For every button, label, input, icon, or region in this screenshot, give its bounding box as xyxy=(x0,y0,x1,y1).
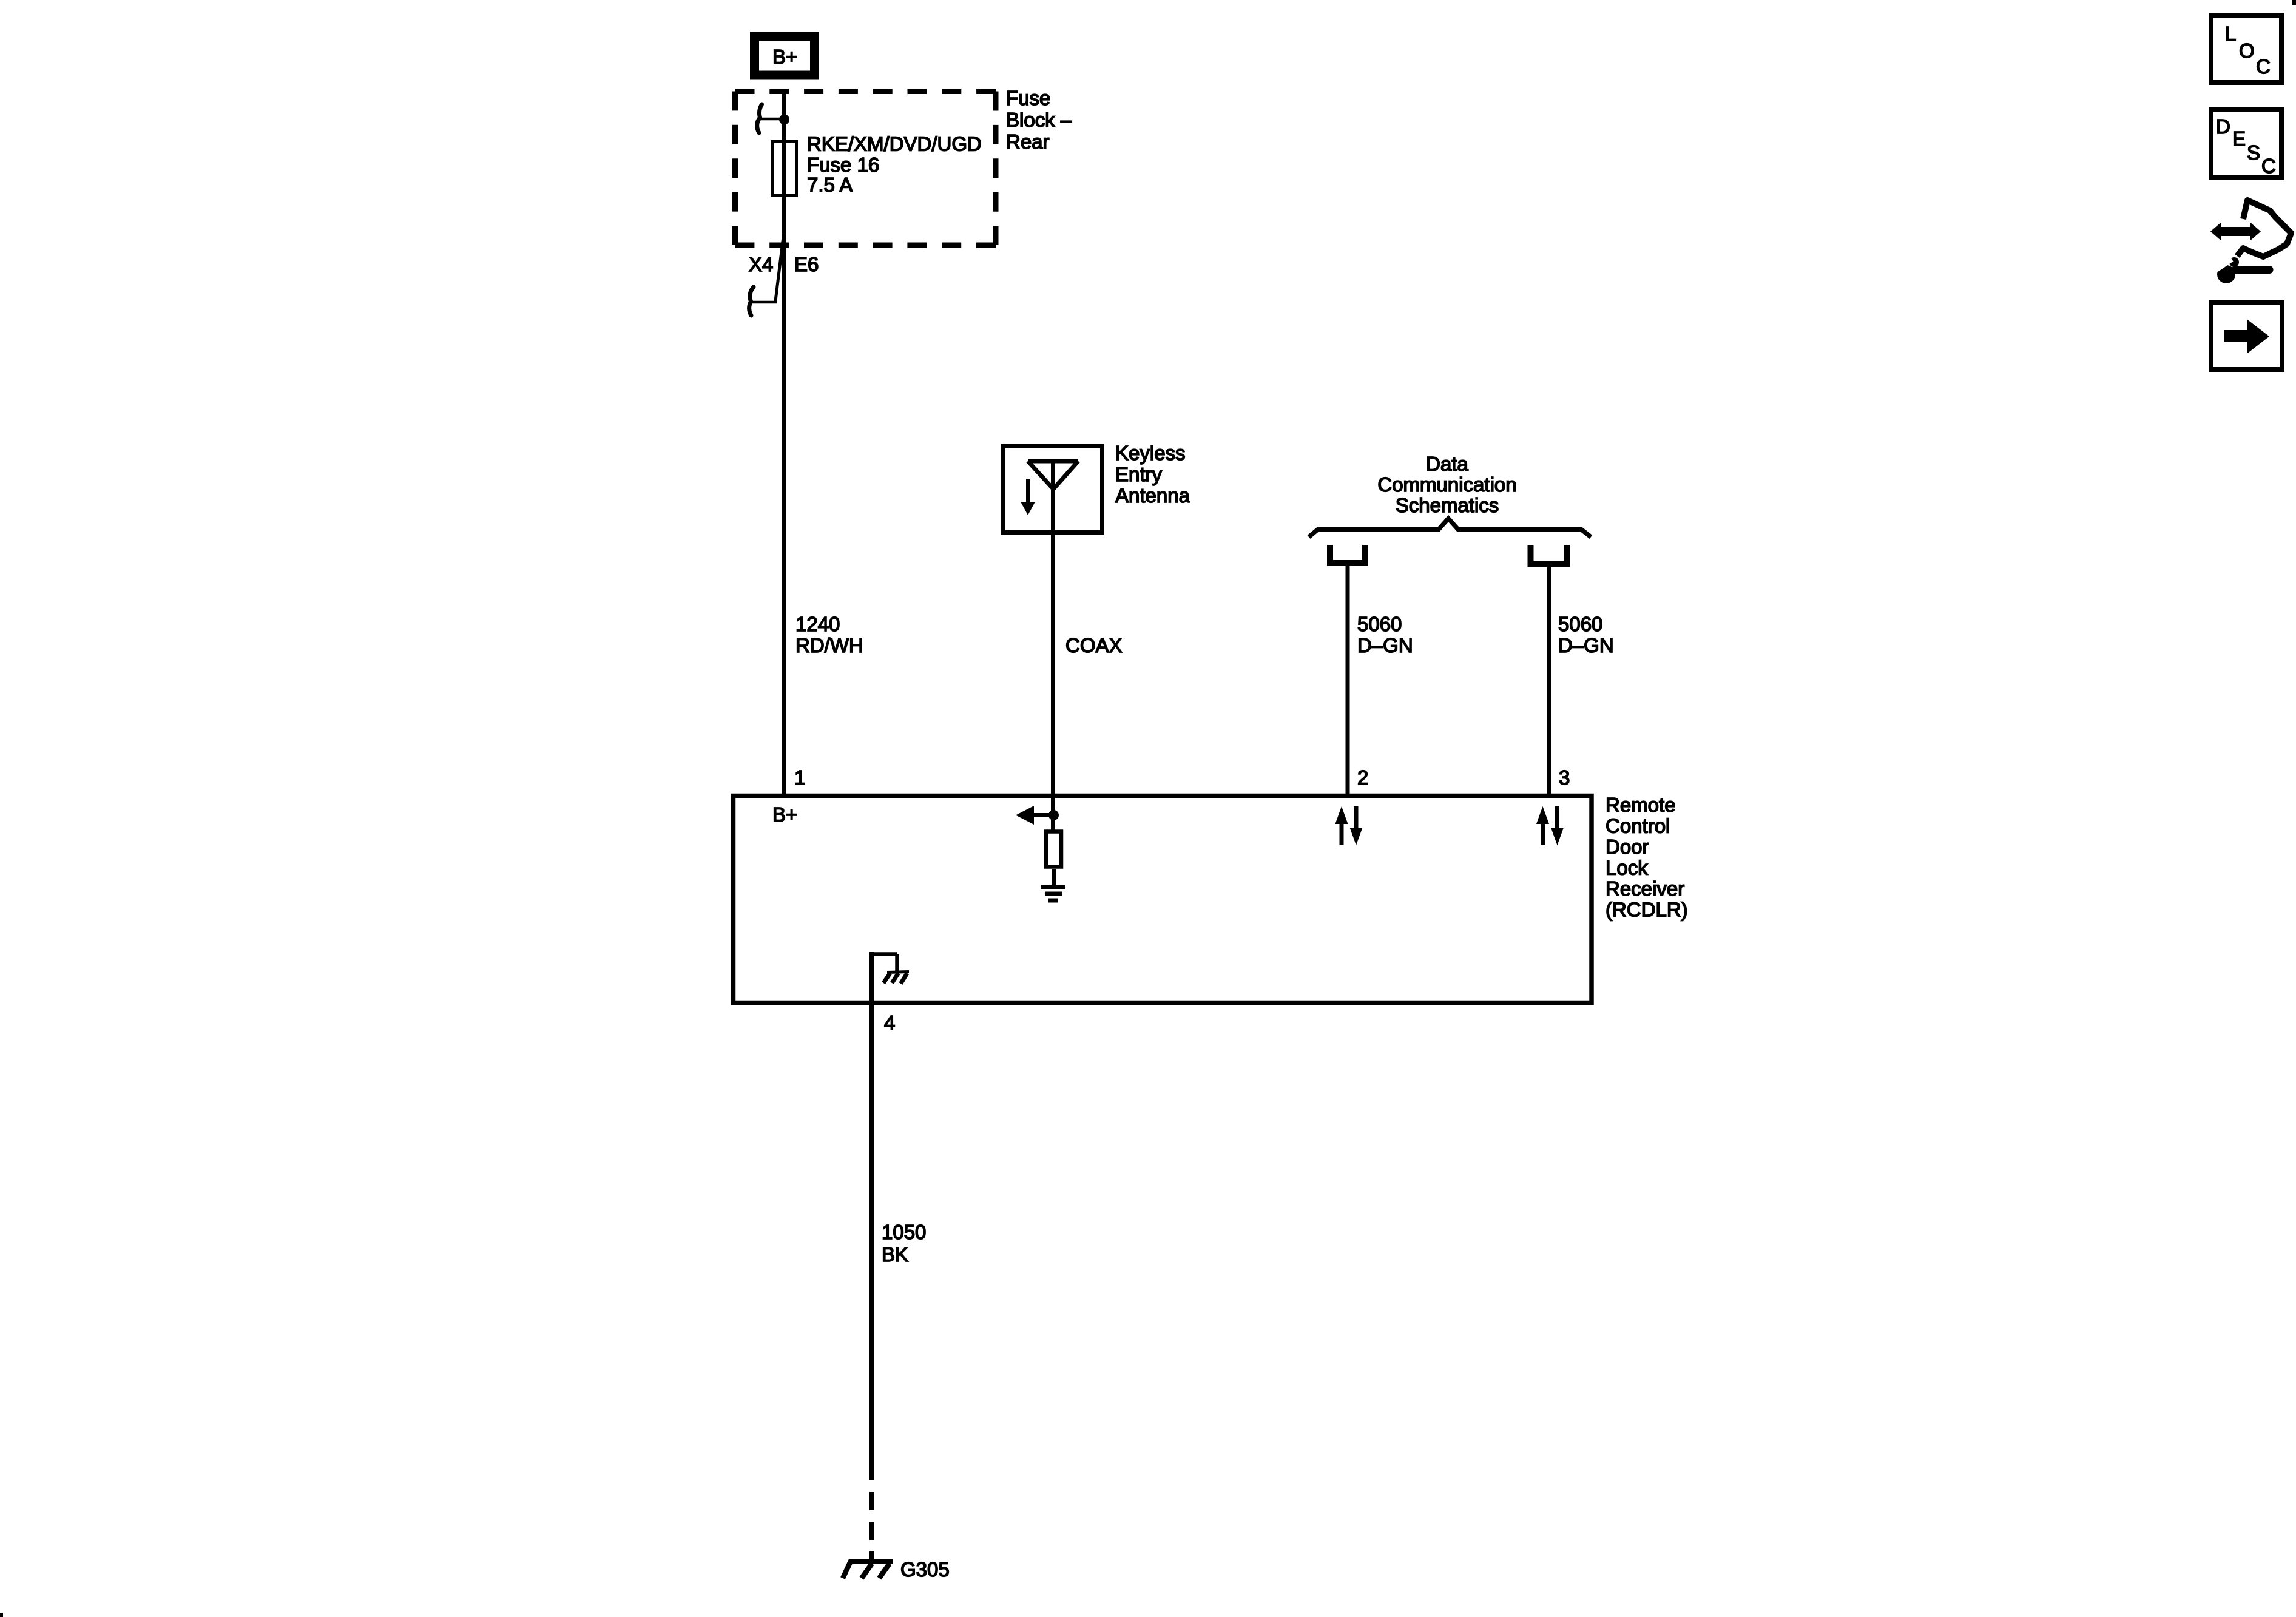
svg-text:Keyless: Keyless xyxy=(1115,442,1186,464)
wiring repair icon: double arrow xyxy=(2210,222,2261,241)
wire from B+ box down into fuse block xyxy=(782,89,786,246)
svg-text:Block –: Block – xyxy=(1006,109,1072,131)
svg-text:S: S xyxy=(2247,141,2260,164)
svg-text:1: 1 xyxy=(794,766,805,789)
svg-text:RKE/XM/DVD/UGD: RKE/XM/DVD/UGD xyxy=(807,133,982,155)
data communication schematics label xyxy=(1377,453,1516,516)
in-line connector X4 / terminal E6 xyxy=(749,237,819,303)
wire 5060 D-GN to pin 3 xyxy=(1549,567,1614,796)
svg-text:5060: 5060 xyxy=(1357,613,1402,635)
wiring repair icon: wrench xyxy=(2215,257,2269,283)
svg-text:X4: X4 xyxy=(749,253,773,275)
svg-text:Rear: Rear xyxy=(1006,130,1050,153)
LOC icon box xyxy=(2211,16,2281,83)
DESC icon box xyxy=(2211,110,2281,178)
svg-text:Entry: Entry xyxy=(1115,463,1163,485)
RCDLR module box xyxy=(734,796,1592,1003)
brace under data communication label xyxy=(1309,519,1591,538)
svg-text:C: C xyxy=(2261,155,2276,177)
svg-text:4: 4 xyxy=(884,1011,895,1034)
wire 5060 D-GN to pin 2 xyxy=(1348,566,1413,796)
resistor inside RCDLR xyxy=(1046,832,1061,867)
svg-text:RD/WH: RD/WH xyxy=(795,634,863,657)
module label: Remote Control Door Lock Receiver (RCDLR) xyxy=(1606,794,1688,921)
svg-text:B+: B+ xyxy=(772,803,797,826)
fuse block dashed outline xyxy=(735,92,996,246)
page artifact dot bottom-left xyxy=(0,1613,3,1617)
internal ground (IEC) xyxy=(1041,887,1065,901)
connector clip terminal (top, inside fuse block) xyxy=(757,104,784,133)
svg-text:B+: B+ xyxy=(772,46,797,68)
svg-text:L: L xyxy=(2225,22,2236,45)
pin 2 internal bidirectional arrows xyxy=(1335,806,1363,845)
pin 3 internal bidirectional arrows xyxy=(1536,806,1564,845)
svg-text:Communication: Communication xyxy=(1377,473,1516,496)
wire 1240 RD/WH to RCDLR pin 1 xyxy=(785,245,863,796)
power feed box B+ xyxy=(755,36,815,75)
down arrow inside antenna box xyxy=(1021,479,1035,515)
slash across wire xyxy=(775,237,784,303)
COAX input internal circuit: arrow, junction, resistor, ground xyxy=(1016,796,1059,830)
svg-text:Remote: Remote xyxy=(1606,794,1676,816)
COAX wire to RCDLR xyxy=(1053,535,1123,796)
junction dot xyxy=(779,115,789,125)
svg-text:C: C xyxy=(2256,55,2271,78)
svg-text:Control: Control xyxy=(1606,815,1670,837)
connector bracket to data schematic (pin 3) xyxy=(1531,545,1567,564)
connector bracket to data schematic (pin 2) xyxy=(1330,545,1365,563)
svg-text:1050: 1050 xyxy=(882,1221,926,1243)
svg-text:Lock: Lock xyxy=(1606,857,1648,879)
svg-text:Antenna: Antenna xyxy=(1115,484,1190,507)
svg-text:COAX: COAX xyxy=(1065,634,1123,657)
keyless entry antenna box xyxy=(1004,442,1190,533)
svg-text:Data: Data xyxy=(1426,453,1468,475)
svg-text:(RCDLR): (RCDLR) xyxy=(1606,899,1688,921)
wire 1050 BK from pin 4 xyxy=(872,1003,927,1561)
wire resistor to internal ground xyxy=(1052,869,1056,885)
svg-text:Fuse: Fuse xyxy=(1006,87,1050,109)
svg-text:BK: BK xyxy=(882,1243,908,1266)
fuse block label: Fuse Block - Rear xyxy=(1006,87,1072,153)
next page arrow icon box xyxy=(2211,303,2282,370)
svg-text:Schematics: Schematics xyxy=(1396,494,1499,516)
ground G305 xyxy=(843,1558,950,1581)
page artifact tick top-right xyxy=(2292,0,2296,5)
svg-text:Door: Door xyxy=(1606,836,1649,858)
svg-text:2: 2 xyxy=(1357,766,1368,789)
svg-text:Fuse 16: Fuse 16 xyxy=(807,154,879,176)
svg-text:1240: 1240 xyxy=(795,613,840,635)
svg-text:D: D xyxy=(2216,115,2230,138)
antenna symbol xyxy=(1028,461,1078,535)
svg-text:E6: E6 xyxy=(794,253,819,275)
pin 4 internal case ground xyxy=(869,952,909,1003)
fuse F16 7.5A xyxy=(772,133,982,197)
svg-text:5060: 5060 xyxy=(1558,613,1602,635)
svg-text:G305: G305 xyxy=(900,1558,950,1581)
connector clip terminal (below X4/E6) xyxy=(749,287,776,316)
svg-text:D–GN: D–GN xyxy=(1357,634,1413,657)
svg-text:Receiver: Receiver xyxy=(1606,877,1684,900)
wiring repair icon: harness outline xyxy=(2237,200,2291,257)
svg-text:E: E xyxy=(2232,127,2246,150)
svg-text:7.5 A: 7.5 A xyxy=(807,174,853,196)
svg-text:3: 3 xyxy=(1559,766,1570,789)
svg-text:D–GN: D–GN xyxy=(1558,634,1614,657)
svg-text:O: O xyxy=(2239,39,2255,62)
